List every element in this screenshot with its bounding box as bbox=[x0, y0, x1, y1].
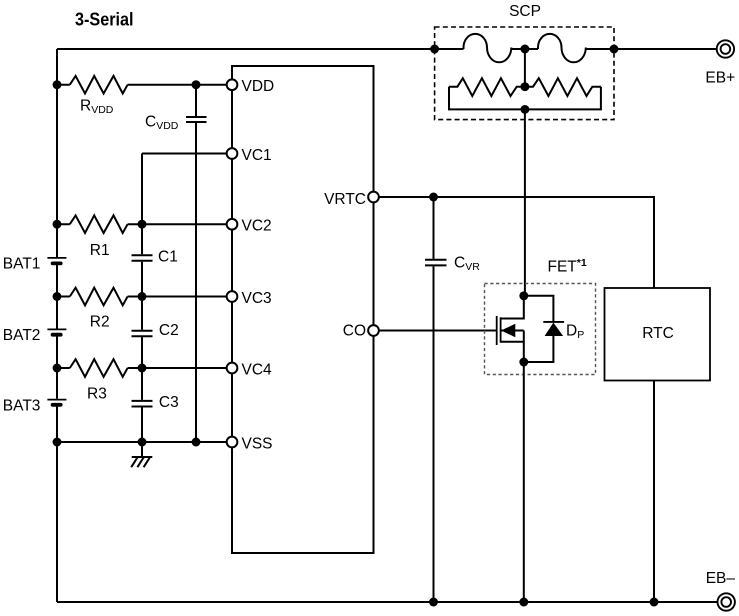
svg-text:VC2: VC2 bbox=[242, 218, 272, 235]
pin VC1 bbox=[227, 148, 238, 159]
capacitor CVDD bbox=[186, 117, 207, 122]
ground bbox=[131, 442, 152, 467]
svg-text:VC4: VC4 bbox=[242, 361, 273, 378]
pin VDD bbox=[227, 79, 238, 90]
node R1 junctions bbox=[53, 220, 62, 229]
node VDD junction bbox=[53, 80, 62, 89]
node R3 junctions bbox=[53, 364, 62, 373]
svg-text:VC1: VC1 bbox=[242, 147, 272, 164]
wire left rail bbox=[56, 49, 58, 602]
wire RVDD row bbox=[57, 84, 232, 86]
capacitor C1 bbox=[132, 255, 153, 261]
node SCP junctions bbox=[430, 45, 439, 54]
wire CVR rail bbox=[433, 197, 435, 602]
svg-text:CVR: CVR bbox=[454, 255, 480, 273]
diode DP bbox=[524, 322, 564, 362]
SCP dashed box bbox=[435, 27, 614, 120]
IC U1 box bbox=[232, 66, 374, 553]
resistor SCP heater bbox=[449, 78, 601, 96]
svg-text:R1: R1 bbox=[90, 242, 110, 259]
wire CO bbox=[374, 330, 497, 332]
svg-text:C1: C1 bbox=[158, 248, 178, 265]
svg-text:FET*1: FET*1 bbox=[548, 257, 587, 276]
resistor RVDD bbox=[70, 76, 128, 94]
svg-text:VRTC: VRTC bbox=[324, 191, 366, 208]
svg-text:R3: R3 bbox=[87, 386, 107, 403]
transistor Q1 drain stub bbox=[501, 296, 524, 319]
svg-text:CVDD: CVDD bbox=[145, 114, 179, 132]
transistor Q1 body arrow bbox=[501, 324, 515, 337]
wire R1 row bbox=[57, 223, 232, 225]
svg-text:EB–: EB– bbox=[706, 570, 736, 587]
wire bottom rail bbox=[57, 601, 717, 603]
terminal EB+ bbox=[705, 40, 735, 86]
battery BAT2 bbox=[47, 328, 66, 330]
terminal EB- bbox=[706, 570, 736, 611]
svg-text:RVDD: RVDD bbox=[80, 98, 114, 116]
svg-text:EB+: EB+ bbox=[705, 70, 735, 87]
node VRTC-CVR junction bbox=[429, 193, 438, 202]
fuse SCP-F1 bbox=[464, 34, 512, 62]
wire SCP output bbox=[524, 109, 526, 295]
wire VRTC bbox=[374, 197, 655, 288]
svg-text:VDD: VDD bbox=[242, 78, 275, 95]
svg-text:R2: R2 bbox=[90, 313, 110, 330]
node R2 junctions bbox=[53, 292, 62, 301]
battery BAT3 bbox=[47, 399, 66, 401]
transistor Q1 body stub bbox=[501, 330, 524, 332]
RTC box bbox=[605, 288, 711, 381]
wire R2 row bbox=[57, 296, 232, 298]
svg-text:CO: CO bbox=[343, 322, 366, 339]
FET dashed box bbox=[485, 284, 596, 375]
node VSS junctions bbox=[53, 438, 62, 447]
svg-text:VSS: VSS bbox=[242, 435, 273, 452]
svg-text:C2: C2 bbox=[159, 322, 179, 339]
svg-text:DP: DP bbox=[566, 323, 584, 341]
pin VRTC bbox=[368, 192, 379, 203]
wire SCP heater frame bbox=[449, 87, 601, 110]
svg-text:BAT1: BAT1 bbox=[3, 255, 41, 272]
transistor Q1 source stub bbox=[501, 341, 524, 343]
pin VC4 bbox=[227, 363, 238, 374]
capacitor CVR bbox=[425, 260, 447, 266]
capacitor C3 bbox=[132, 401, 153, 407]
transistor Q1 gate bar bbox=[496, 316, 498, 345]
pin VC2 bbox=[227, 219, 238, 230]
svg-text:C3: C3 bbox=[159, 394, 179, 411]
svg-text:BAT3: BAT3 bbox=[3, 398, 41, 415]
svg-text:SCP: SCP bbox=[509, 3, 541, 20]
wire CVDD rail bbox=[195, 85, 197, 442]
transistor Q1 channel bar bbox=[500, 317, 502, 342]
pin CO bbox=[368, 325, 379, 336]
wire VC1 bbox=[142, 153, 232, 155]
battery BAT1 bbox=[47, 257, 66, 259]
resistor R1 bbox=[70, 215, 128, 233]
pin VC3 bbox=[227, 291, 238, 302]
wire R3 row bbox=[57, 367, 232, 369]
node FET top bbox=[519, 291, 528, 300]
wire diode branch top bbox=[524, 296, 554, 322]
wire SCP center tap bbox=[524, 49, 526, 87]
node bottom rail junctions bbox=[429, 598, 438, 607]
svg-text:BAT2: BAT2 bbox=[3, 327, 41, 344]
svg-text:VC3: VC3 bbox=[242, 290, 272, 307]
svg-text:3-Serial: 3-Serial bbox=[75, 9, 134, 30]
wire FET rail bbox=[523, 331, 525, 603]
fuse SCP-F2 bbox=[538, 34, 586, 62]
pin VSS bbox=[227, 437, 238, 448]
wire RTC to bottom rail bbox=[653, 381, 655, 603]
wire middle rail bbox=[141, 154, 143, 443]
node FET bottom bbox=[519, 358, 528, 367]
svg-text:RTC: RTC bbox=[642, 325, 674, 342]
wire top rail bbox=[57, 48, 717, 50]
resistor R2 bbox=[70, 288, 128, 306]
resistor R3 bbox=[70, 359, 128, 377]
wire VSS row bbox=[57, 441, 232, 443]
wire SCP internal rail bbox=[435, 48, 614, 50]
capacitor C2 bbox=[132, 331, 153, 337]
